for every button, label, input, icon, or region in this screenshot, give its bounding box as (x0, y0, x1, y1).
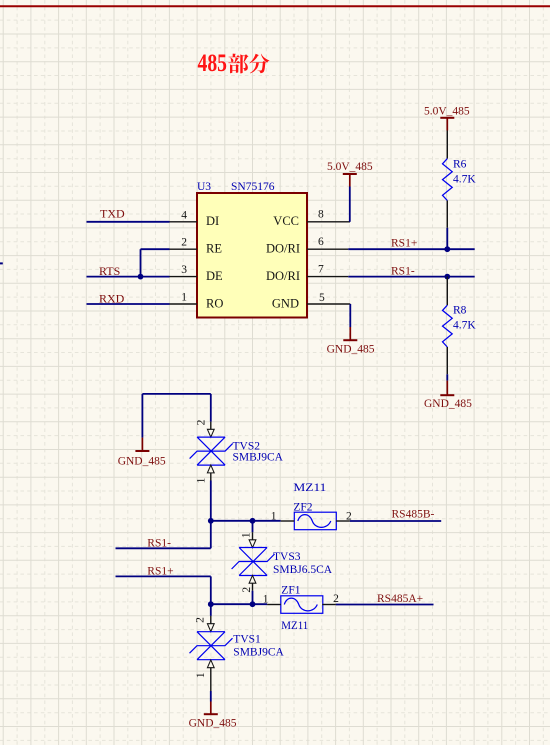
svg-text:GND_485: GND_485 (118, 456, 166, 468)
svg-text:1: 1 (263, 594, 269, 606)
svg-text:RS485A+: RS485A+ (377, 593, 423, 605)
svg-text:6: 6 (318, 236, 324, 248)
svg-text:SMBJ9CA: SMBJ9CA (233, 452, 284, 464)
svg-text:RS1+: RS1+ (391, 238, 417, 250)
svg-text:RO: RO (206, 296, 223, 310)
svg-text:2: 2 (346, 511, 352, 523)
svg-text:4.7K: 4.7K (453, 320, 476, 332)
svg-text:DO/RI: DO/RI (266, 269, 300, 283)
svg-text:7: 7 (318, 263, 324, 275)
svg-text:485: 485 (198, 50, 228, 77)
svg-text:SMBJ6.5CA: SMBJ6.5CA (273, 564, 333, 576)
svg-text:RE: RE (206, 242, 222, 256)
svg-text:5.0V_485: 5.0V_485 (424, 106, 470, 118)
svg-text:DI: DI (206, 214, 219, 228)
svg-text:DO/RI: DO/RI (266, 242, 300, 256)
svg-text:U3: U3 (197, 181, 211, 193)
svg-text:TVS1: TVS1 (233, 633, 261, 645)
svg-text:DE: DE (206, 269, 223, 283)
svg-text:4: 4 (181, 209, 187, 221)
svg-text:SMBJ9CA: SMBJ9CA (233, 647, 284, 659)
svg-text:2: 2 (181, 237, 187, 249)
svg-text:ZF2: ZF2 (293, 501, 312, 513)
svg-text:8: 8 (318, 209, 324, 221)
svg-text:VCC: VCC (273, 214, 299, 228)
svg-text:RS1-: RS1- (391, 265, 415, 277)
svg-text:TXD: TXD (100, 207, 125, 221)
svg-text:R6: R6 (453, 159, 467, 171)
svg-text:TVS3: TVS3 (273, 551, 301, 563)
svg-text:GND_485: GND_485 (189, 718, 237, 730)
svg-text:RS485B-: RS485B- (392, 508, 435, 520)
svg-text:SN75176: SN75176 (231, 181, 275, 193)
svg-text:1: 1 (196, 477, 208, 483)
svg-text:MZ11: MZ11 (293, 482, 326, 494)
svg-text:1: 1 (240, 532, 252, 538)
svg-text:R8: R8 (453, 305, 467, 317)
svg-text:1: 1 (195, 672, 207, 678)
svg-text:1: 1 (271, 511, 277, 523)
svg-text:MZ11: MZ11 (281, 620, 308, 632)
svg-text:3: 3 (181, 264, 187, 276)
svg-text:2: 2 (333, 593, 339, 605)
svg-text:1: 1 (181, 292, 187, 304)
svg-text:2: 2 (241, 587, 253, 593)
svg-text:GND_485: GND_485 (327, 343, 375, 355)
svg-text:GND_485: GND_485 (424, 398, 472, 410)
svg-text:2: 2 (196, 419, 208, 425)
svg-text:5: 5 (319, 292, 325, 304)
svg-text:4.7K: 4.7K (453, 174, 476, 186)
svg-text:2: 2 (195, 617, 207, 623)
svg-text:GND: GND (272, 296, 299, 310)
svg-text:ZF1: ZF1 (281, 585, 300, 597)
svg-text:5.0V_485: 5.0V_485 (327, 161, 373, 173)
